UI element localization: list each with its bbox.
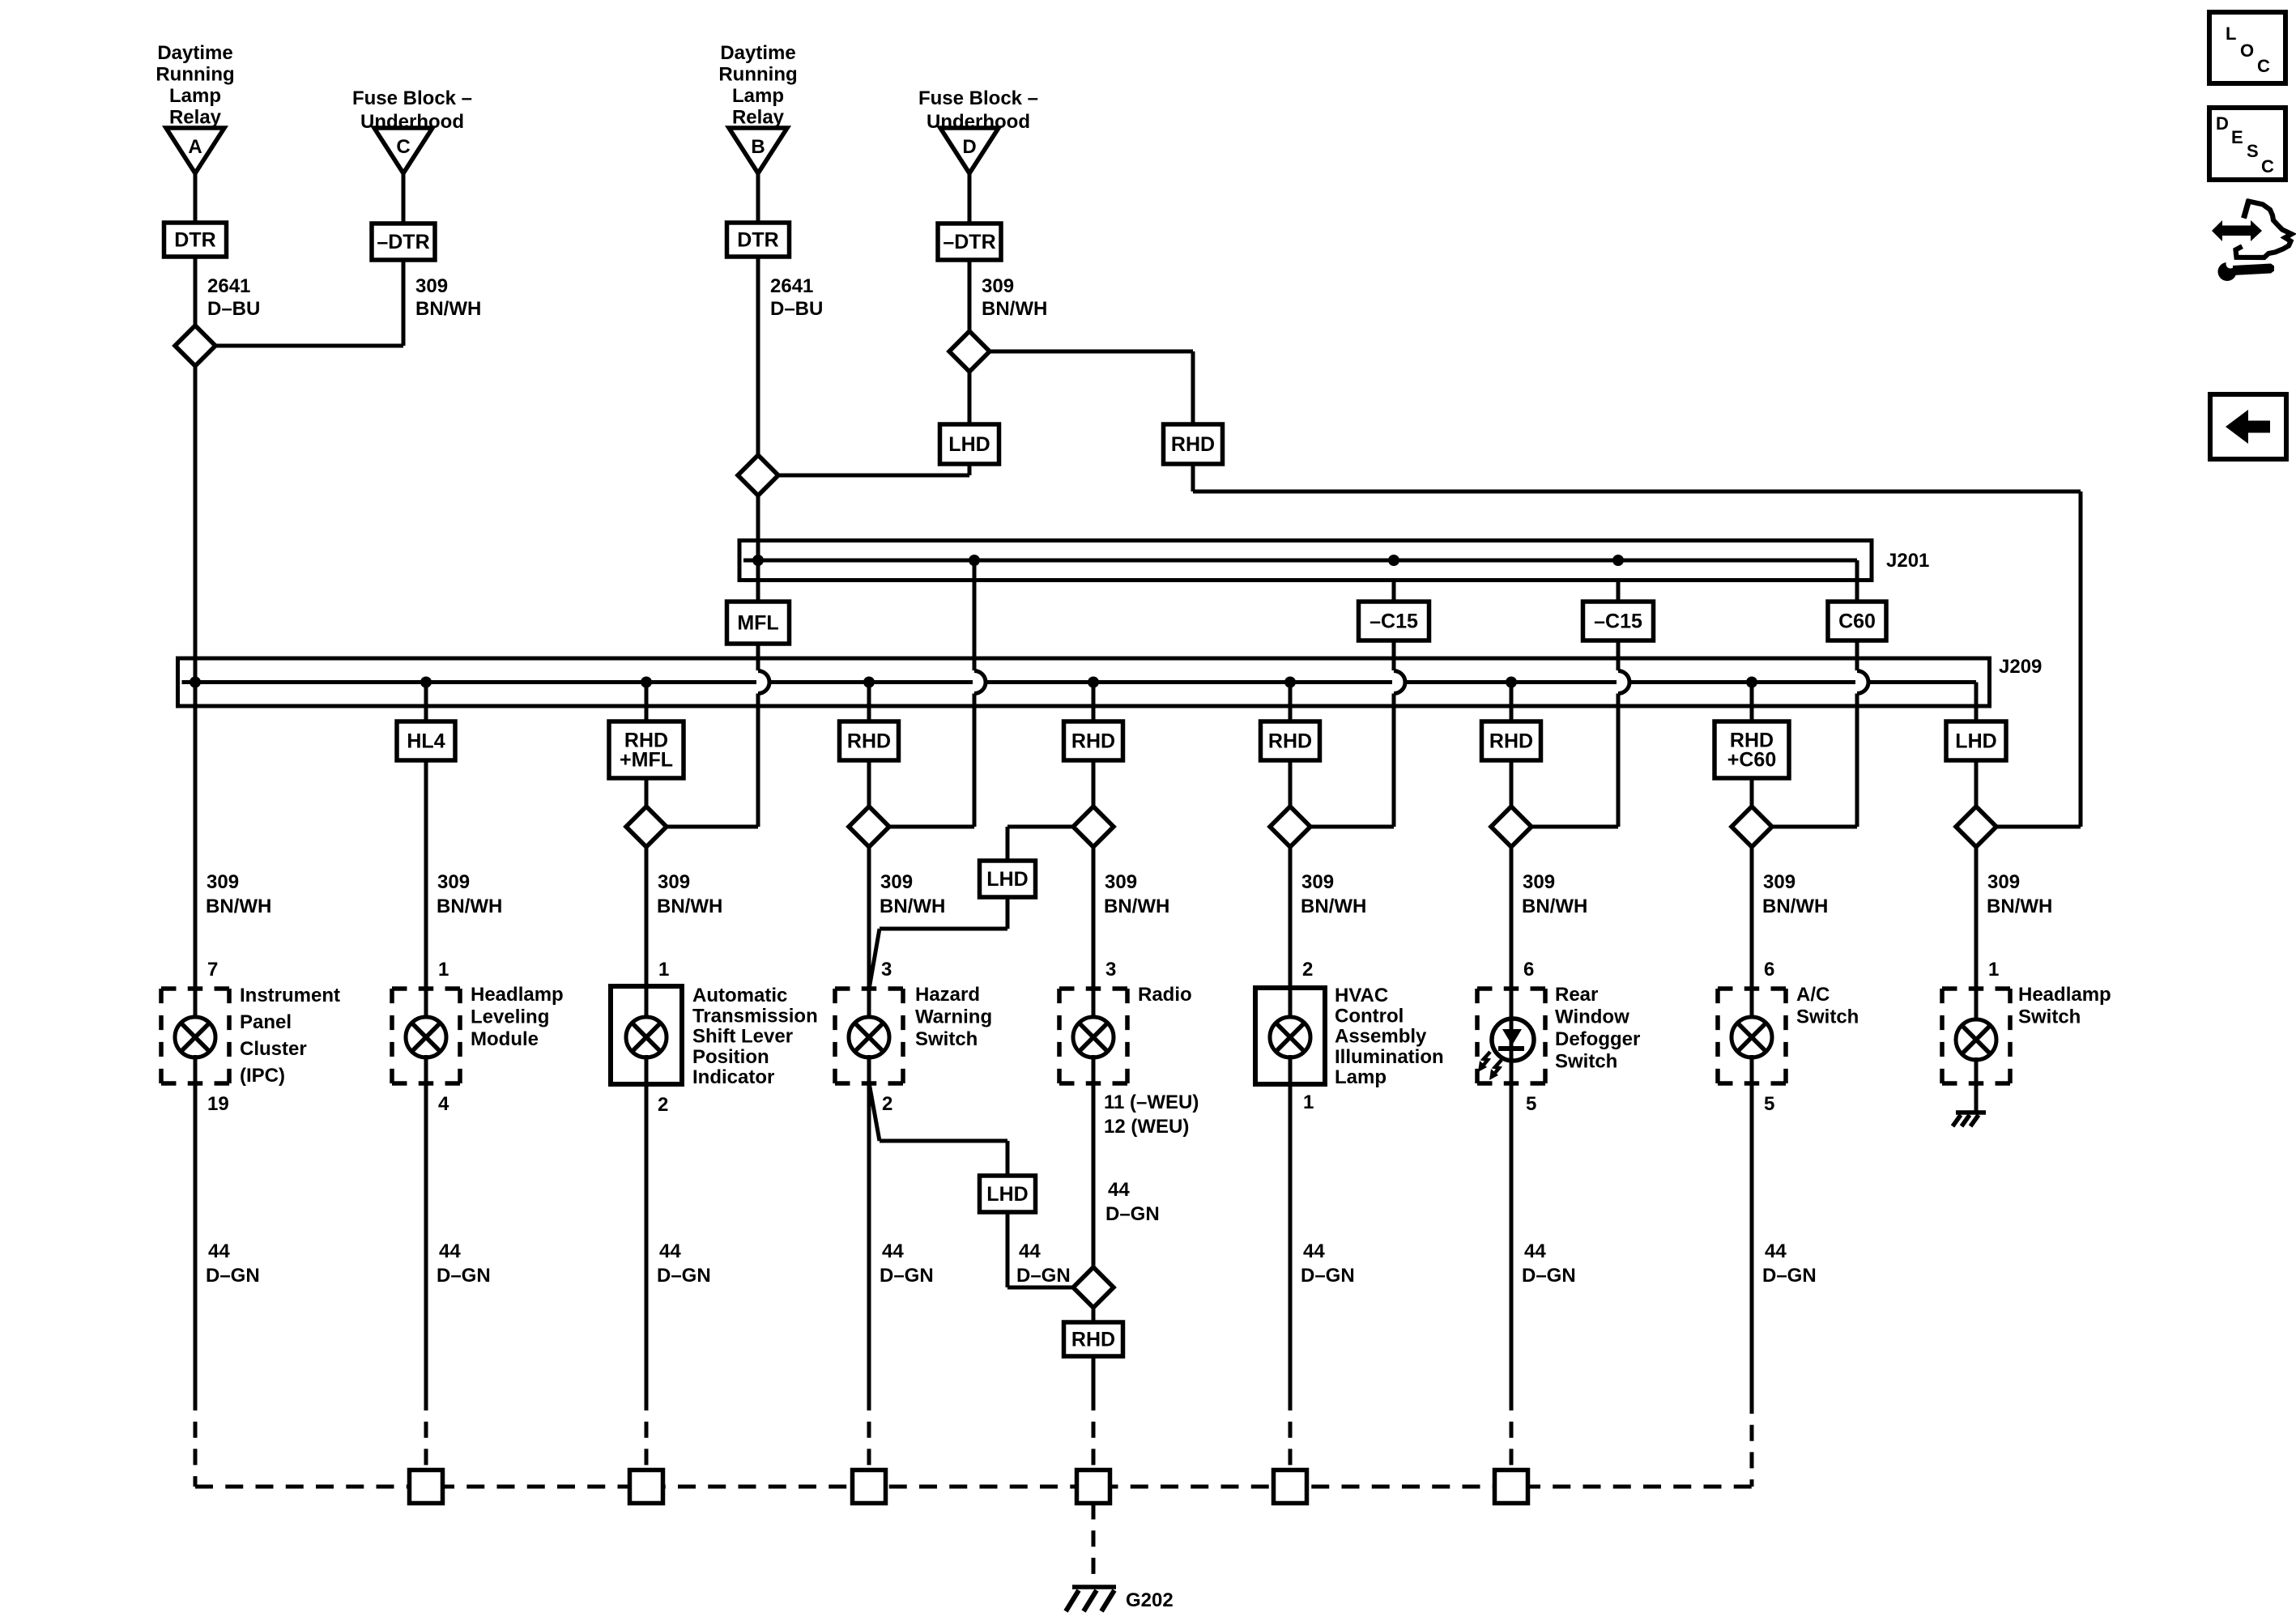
svg-text:2: 2: [658, 1094, 668, 1116]
svg-text:Warning: Warning: [915, 1006, 992, 1028]
svg-text:Shift Lever: Shift Lever: [692, 1026, 793, 1048]
svg-text:Panel: Panel: [240, 1011, 292, 1033]
svg-text:B: B: [751, 136, 765, 158]
svg-text:12 (WEU): 12 (WEU): [1104, 1116, 1189, 1138]
svg-text:6: 6: [1523, 959, 1534, 981]
svg-text:Lamp: Lamp: [1335, 1066, 1387, 1088]
svg-text:309: 309: [880, 871, 913, 893]
svg-text:309: 309: [1763, 871, 1795, 893]
svg-text:L: L: [2226, 23, 2236, 44]
svg-text:D–GN: D–GN: [1522, 1265, 1576, 1287]
svg-text:Daytime: Daytime: [720, 42, 795, 64]
svg-text:1: 1: [1303, 1091, 1314, 1113]
svg-text:Control: Control: [1335, 1005, 1404, 1027]
svg-text:Relay: Relay: [169, 107, 222, 129]
svg-text:309: 309: [207, 871, 239, 893]
svg-text:Automatic: Automatic: [692, 985, 787, 1006]
svg-text:Switch: Switch: [915, 1028, 978, 1050]
svg-text:Running: Running: [155, 64, 234, 86]
svg-text:–DTR: –DTR: [943, 231, 995, 253]
svg-text:D–GN: D–GN: [1762, 1265, 1817, 1287]
svg-text:309: 309: [1987, 871, 2020, 893]
svg-text:D–GN: D–GN: [880, 1265, 934, 1287]
svg-text:Relay: Relay: [732, 107, 785, 129]
svg-text:Position: Position: [692, 1046, 769, 1068]
svg-text:1: 1: [1988, 959, 1999, 981]
svg-text:BN/WH: BN/WH: [1522, 896, 1587, 917]
svg-text:19: 19: [207, 1093, 229, 1115]
svg-text:HL4: HL4: [407, 730, 445, 753]
svg-text:RHD: RHD: [1268, 730, 1312, 753]
svg-text:BN/WH: BN/WH: [437, 896, 502, 917]
svg-text:O: O: [2240, 40, 2254, 61]
svg-text:Cluster: Cluster: [240, 1038, 307, 1060]
svg-text:Assembly: Assembly: [1335, 1026, 1427, 1048]
svg-text:44: 44: [1765, 1240, 1787, 1262]
svg-text:C: C: [2257, 56, 2270, 76]
svg-text:BN/WH: BN/WH: [1301, 896, 1366, 917]
svg-text:A: A: [188, 136, 202, 158]
svg-text:Leveling: Leveling: [471, 1006, 549, 1028]
svg-text:2: 2: [1302, 959, 1313, 981]
svg-text:C60: C60: [1838, 611, 1876, 633]
svg-text:–C15: –C15: [1370, 611, 1418, 633]
svg-text:Radio: Radio: [1138, 984, 1192, 1006]
svg-text:Rear: Rear: [1555, 984, 1598, 1006]
svg-text:C: C: [2261, 156, 2274, 177]
svg-text:+MFL: +MFL: [620, 749, 673, 772]
svg-text:BN/WH: BN/WH: [1762, 896, 1828, 917]
svg-text:4: 4: [438, 1093, 449, 1115]
svg-text:Lamp: Lamp: [169, 85, 221, 107]
svg-text:Window: Window: [1555, 1006, 1629, 1028]
svg-text:5: 5: [1764, 1093, 1774, 1115]
svg-text:44: 44: [882, 1240, 904, 1262]
svg-text:309: 309: [437, 871, 470, 893]
svg-text:44: 44: [659, 1240, 681, 1262]
svg-text:LHD: LHD: [986, 1183, 1028, 1206]
svg-text:Illumination: Illumination: [1335, 1046, 1444, 1068]
svg-text:D–BU: D–BU: [770, 298, 823, 320]
svg-text:44: 44: [1019, 1240, 1041, 1262]
svg-text:309: 309: [1301, 871, 1334, 893]
svg-text:2641: 2641: [207, 275, 250, 297]
svg-text:2641: 2641: [770, 275, 813, 297]
svg-text:Lamp: Lamp: [732, 85, 784, 107]
svg-text:LHD: LHD: [986, 868, 1028, 891]
svg-text:D–GN: D–GN: [657, 1265, 711, 1287]
svg-text:Hazard: Hazard: [915, 984, 980, 1006]
svg-text:309: 309: [658, 871, 690, 893]
svg-text:BN/WH: BN/WH: [415, 298, 481, 320]
svg-text:2: 2: [882, 1093, 892, 1115]
svg-text:11 (–WEU): 11 (–WEU): [1104, 1091, 1199, 1113]
svg-text:BN/WH: BN/WH: [1104, 896, 1169, 917]
svg-text:BN/WH: BN/WH: [1987, 896, 2052, 917]
svg-text:Fuse Block –: Fuse Block –: [918, 87, 1038, 109]
svg-text:BN/WH: BN/WH: [657, 896, 722, 917]
svg-text:RHD: RHD: [1489, 730, 1533, 753]
svg-text:Defogger: Defogger: [1555, 1028, 1640, 1050]
svg-text:Switch: Switch: [1555, 1051, 1617, 1073]
svg-text:–C15: –C15: [1594, 611, 1642, 633]
svg-text:309: 309: [415, 275, 448, 297]
svg-text:–DTR: –DTR: [377, 231, 429, 253]
svg-text:44: 44: [1108, 1179, 1130, 1201]
svg-text:BN/WH: BN/WH: [206, 896, 271, 917]
svg-text:Switch: Switch: [1796, 1006, 1859, 1028]
svg-text:44: 44: [208, 1240, 230, 1262]
svg-text:6: 6: [1764, 959, 1774, 981]
svg-text:A/C: A/C: [1796, 984, 1830, 1006]
svg-text:RHD: RHD: [847, 730, 891, 753]
svg-text:3: 3: [881, 959, 892, 981]
svg-text:Headlamp: Headlamp: [471, 984, 564, 1006]
svg-text:7: 7: [207, 959, 218, 981]
svg-text:BN/WH: BN/WH: [880, 896, 945, 917]
svg-text:5: 5: [1526, 1093, 1536, 1115]
svg-text:Daytime: Daytime: [157, 42, 232, 64]
svg-text:309: 309: [982, 275, 1014, 297]
svg-text:RHD: RHD: [1071, 730, 1115, 753]
svg-text:Running: Running: [718, 64, 797, 86]
svg-text:309: 309: [1523, 871, 1555, 893]
svg-text:Indicator: Indicator: [692, 1066, 774, 1088]
svg-text:D: D: [2216, 113, 2229, 134]
svg-text:RHD: RHD: [1071, 1329, 1115, 1351]
svg-text:LHD: LHD: [948, 433, 990, 456]
svg-text:MFL: MFL: [737, 612, 778, 635]
svg-text:D–GN: D–GN: [1105, 1203, 1160, 1225]
svg-text:1: 1: [658, 959, 669, 981]
svg-text:J209: J209: [1999, 656, 2042, 678]
svg-text:S: S: [2247, 141, 2259, 161]
svg-text:BN/WH: BN/WH: [982, 298, 1047, 320]
svg-text:D–GN: D–GN: [1301, 1265, 1355, 1287]
svg-text:+C60: +C60: [1727, 749, 1776, 772]
svg-text:44: 44: [1303, 1240, 1325, 1262]
svg-text:Instrument: Instrument: [240, 985, 340, 1006]
svg-text:HVAC: HVAC: [1335, 985, 1388, 1006]
svg-text:DTR: DTR: [737, 229, 778, 252]
svg-text:Switch: Switch: [2018, 1006, 2081, 1028]
svg-text:Module: Module: [471, 1028, 539, 1050]
svg-text:LHD: LHD: [1955, 730, 1996, 753]
svg-text:D–BU: D–BU: [207, 298, 260, 320]
svg-text:Transmission: Transmission: [692, 1005, 818, 1027]
svg-text:309: 309: [1105, 871, 1137, 893]
svg-text:G202: G202: [1126, 1589, 1174, 1611]
svg-text:C: C: [396, 136, 410, 158]
svg-text:1: 1: [438, 959, 449, 981]
svg-text:Headlamp: Headlamp: [2018, 984, 2111, 1006]
svg-text:D–GN: D–GN: [1016, 1265, 1071, 1287]
svg-text:44: 44: [439, 1240, 461, 1262]
svg-text:(IPC): (IPC): [240, 1065, 285, 1087]
svg-text:J201: J201: [1886, 550, 1929, 572]
svg-text:E: E: [2231, 127, 2243, 147]
svg-text:DTR: DTR: [174, 229, 215, 252]
svg-text:RHD: RHD: [1171, 433, 1215, 456]
svg-text:D–GN: D–GN: [206, 1265, 260, 1287]
svg-text:D–GN: D–GN: [437, 1265, 491, 1287]
svg-text:D: D: [962, 136, 976, 158]
svg-text:44: 44: [1524, 1240, 1546, 1262]
svg-text:Fuse Block –: Fuse Block –: [352, 87, 472, 109]
svg-text:3: 3: [1105, 959, 1116, 981]
